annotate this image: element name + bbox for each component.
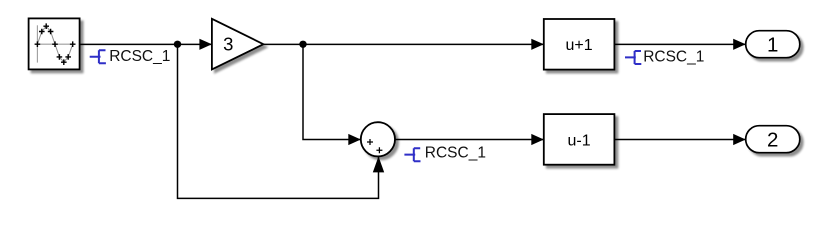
- wire: u+1 output to outport 1: [614, 43, 745, 45]
- svg-text:1: 1: [767, 34, 778, 57]
- arrowhead into sum west port: [348, 134, 361, 145]
- wire: branch B down to sum west input: [303, 44, 361, 139]
- branch node B (after gain): [299, 41, 306, 48]
- arrowhead into sum south port: [373, 156, 384, 172]
- plus sign (west port): [367, 139, 373, 145]
- arrowhead into outport 1: [733, 39, 746, 50]
- plus sign (south port): [376, 147, 382, 153]
- gain block K=3: [212, 19, 264, 70]
- outport 2: [746, 126, 800, 153]
- outport 1: [746, 31, 800, 58]
- svg-text:u-1: u-1: [568, 133, 591, 150]
- wire: sum output to u-1 input: [395, 139, 544, 141]
- svg-text:3: 3: [223, 34, 233, 55]
- arrowhead into outport 2: [733, 134, 746, 145]
- arrowhead into u-1: [531, 134, 544, 145]
- icon horizontal axis: [37, 43, 73, 45]
- fcn block u+1: [544, 19, 615, 70]
- svg-text:u+1: u+1: [566, 37, 593, 54]
- svg-text:RCSC_1: RCSC_1: [643, 49, 704, 66]
- signal label RCSC_1 (source output): logging badge: [90, 50, 106, 63]
- svg-text:2: 2: [767, 129, 778, 152]
- signal label RCSC_1 (u+1 output): logging badge: [625, 51, 641, 64]
- svg-text:RCSC_1: RCSC_1: [425, 144, 486, 161]
- wire: branch A down and along bottom to sum south input: [178, 44, 379, 198]
- wire: source output to gain input: [80, 43, 212, 45]
- arrowhead into u+1: [531, 39, 544, 50]
- arrowhead into gain: [199, 39, 212, 50]
- wire: gain output to u+1 input: [263, 43, 543, 45]
- fcn block u-1: [544, 114, 615, 165]
- sum block: [361, 122, 395, 156]
- svg-text:RCSC_1: RCSC_1: [109, 48, 170, 65]
- signal label RCSC_1 (sum output): logging badge: [404, 148, 420, 161]
- sine wave source block: [29, 18, 80, 69]
- icon sample markers: [35, 23, 76, 65]
- wire: u-1 output to outport 2: [614, 139, 745, 141]
- branch node A (after source): [174, 41, 181, 48]
- icon sine polyline: [37, 26, 72, 62]
- icon vertical axis: [36, 25, 38, 62]
